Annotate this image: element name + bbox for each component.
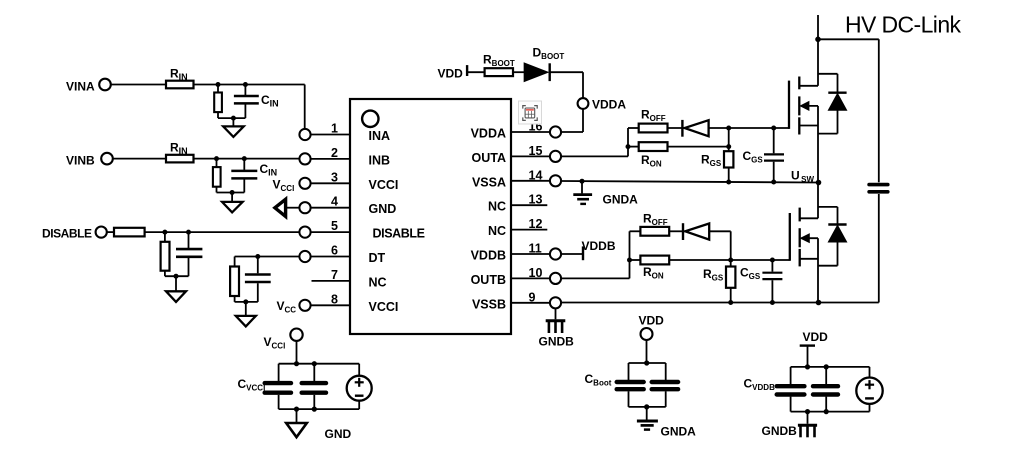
- svg-text:INB: INB: [369, 153, 391, 167]
- body diode D1 (filled, pointing up): [828, 91, 846, 93]
- pin 4 circle: [299, 202, 310, 213]
- ground GND open triangle (VCCI block): [296, 409, 298, 423]
- resistor RIN (A): [166, 81, 194, 89]
- pin 7 stub (NC): [312, 280, 351, 282]
- MOSFET Q2 body tap with arrow: [801, 237, 818, 239]
- body diode D2 (filled, pointing up): [828, 223, 846, 225]
- pin 6 stub: [311, 256, 351, 258]
- CBoot bottom rail: [629, 406, 666, 408]
- svg-text:8: 8: [331, 292, 338, 306]
- wire RON-B row: [630, 259, 641, 261]
- MOSFET Q2 source tap: [800, 258, 818, 260]
- wire VSSA pin 14 / USW rail: [561, 181, 818, 183]
- wire resistor to pin 5: [145, 231, 300, 233]
- DT resistor vertical: [234, 257, 236, 267]
- pin 1 stub: [311, 134, 351, 136]
- node junction gate A: [726, 126, 731, 131]
- ground GNDA (pin 14): [581, 181, 583, 193]
- filter resistor (A) vertical: [217, 85, 219, 93]
- wire VDD down (CVDDB): [807, 346, 809, 367]
- node junction RIN-A / filter resistor: [216, 82, 221, 87]
- MOSFET Q1 source wire down to USW: [817, 106, 819, 183]
- diode DOFF-B (open, pointing left): [682, 223, 684, 240]
- body diode D1 top link: [818, 73, 838, 75]
- resistor ROFF (B): [640, 227, 669, 236]
- resistor RON (B): [640, 256, 669, 265]
- VDD terminal tick (CVDDB block): [800, 344, 815, 346]
- node junction ground stem A: [231, 116, 236, 121]
- svg-text:HV DC-Link: HV DC-Link: [845, 12, 962, 38]
- node junction FET source B: [816, 300, 822, 306]
- wire VDDA to pin 16: [582, 109, 584, 132]
- pin 14 stub: [511, 180, 550, 182]
- wire bottom of RC (A): [218, 117, 245, 119]
- svg-text:9: 9: [529, 290, 536, 304]
- pin 12 stub (NC): [511, 229, 547, 231]
- svg-text:GNDB: GNDB: [762, 424, 798, 438]
- pin 14 circle: [550, 175, 561, 186]
- wire RIN to pin 2: [194, 158, 300, 160]
- pin 11 stub: [511, 253, 550, 255]
- MOSFET Q2 channel segments: [799, 208, 801, 222]
- svg-text:5: 5: [331, 219, 338, 233]
- node junction CIN-A: [243, 82, 248, 87]
- IC U1 gate driver body: [350, 99, 511, 334]
- node junction DISABLE R: [162, 230, 167, 235]
- wire ROFF to diode (A): [668, 127, 685, 129]
- node junction ground stem B: [230, 190, 235, 195]
- svg-text:GNDB: GNDB: [539, 335, 575, 349]
- CVDDB bottom rail: [791, 411, 870, 413]
- svg-text:12: 12: [529, 217, 543, 231]
- svg-text:DISABLE: DISABLE: [373, 227, 425, 241]
- svg-text:10: 10: [529, 266, 543, 280]
- pin 2 stub: [311, 158, 351, 160]
- IC U1 pin-1 indicator circle: [362, 111, 378, 127]
- pin 10 circle: [550, 273, 561, 284]
- svg-text:VSSA: VSSA: [472, 175, 506, 189]
- CBoot top rail: [629, 362, 666, 364]
- wire ROFF-A row left: [628, 127, 639, 129]
- pin 5 circle: [299, 227, 310, 238]
- grid icon placeholder near pin 16: [519, 101, 542, 124]
- GND arrow at pin 4 (open left triangle): [286, 207, 300, 209]
- pin 9 circle: [550, 297, 561, 308]
- wire RIN to corner above pin1: [194, 84, 305, 86]
- capacitor CGS (A): [771, 126, 776, 131]
- svg-text:NC: NC: [488, 200, 506, 214]
- diode DBOOT (filled, pointing right): [524, 63, 547, 81]
- ground DISABLE open triangle: [175, 276, 177, 291]
- wire stub up to RON/ROFF rows (B): [629, 231, 631, 278]
- ground (B) open triangle: [231, 193, 233, 202]
- svg-text:OUTA: OUTA: [472, 151, 507, 165]
- wire down to pin 1: [304, 85, 306, 129]
- capacitor CIN (A): [244, 85, 246, 96]
- svg-text:VINB: VINB: [66, 154, 95, 168]
- node junction DT cap: [255, 254, 260, 259]
- terminal VINA circle: [99, 79, 111, 91]
- svg-text:15: 15: [529, 144, 543, 158]
- wire right DC-link rail lower: [878, 194, 880, 303]
- svg-text:VDDA: VDDA: [471, 127, 506, 141]
- capacitor CGS (B): [770, 258, 775, 263]
- wire ROFF-B row left: [630, 230, 641, 232]
- resistor RIN (B): [166, 155, 194, 163]
- MOSFET Q1 source tap: [799, 125, 818, 127]
- wire diode to gate junction (B): [709, 230, 731, 232]
- svg-text:GNDA: GNDA: [661, 425, 697, 439]
- CVCCI bottom rail: [279, 408, 360, 410]
- wire top rail to right: [818, 38, 879, 40]
- node junctions CVCCI top: [294, 361, 299, 366]
- pin 4 stub: [311, 207, 351, 209]
- wire DBOOT to VDDA corner: [550, 71, 583, 73]
- svg-text:OUTB: OUTB: [471, 273, 506, 287]
- body diode D1 bottom link: [818, 133, 838, 135]
- MOSFET Q2 source wire down to VSSB rail: [817, 238, 819, 302]
- node junction DISABLE C: [186, 230, 191, 235]
- ground DT open triangle: [245, 302, 247, 316]
- wire bottom of DT RC: [235, 301, 258, 303]
- VDDB terminal tick: [582, 246, 584, 260]
- wire DT pin 6 to RC: [235, 256, 300, 258]
- node junctions CVDDB top: [805, 364, 810, 369]
- svg-text:INA: INA: [369, 129, 391, 143]
- svg-text:VCCI: VCCI: [369, 178, 399, 192]
- MOSFET Q2 drain wire from USW: [817, 183, 819, 219]
- node junction RON-B left: [627, 258, 632, 263]
- svg-text:VDDB: VDDB: [582, 239, 616, 253]
- capacitor CVCCI 1: [278, 364, 280, 381]
- svg-text:VSSB: VSSB: [472, 297, 506, 311]
- terminal VINB circle: [101, 153, 113, 165]
- node junction top rail: [815, 37, 821, 43]
- resistor RGS (A) vertical: [728, 128, 730, 151]
- body diode D2 top link: [818, 206, 838, 208]
- body diode D2 bottom link: [818, 265, 838, 267]
- svg-text:VDDA: VDDA: [592, 98, 626, 112]
- MOSFET Q1 gate bar: [788, 81, 790, 129]
- wire VSSB pin 9 rail: [561, 302, 879, 304]
- pin 8 circle: [299, 300, 310, 311]
- resistor ROFF (A): [639, 124, 668, 133]
- pin 11 circle: [550, 248, 561, 259]
- ground GNDB comb (CVDDB block): [807, 412, 809, 424]
- svg-text:VDD: VDD: [438, 67, 464, 81]
- node junction RGS-A bottom: [726, 180, 731, 185]
- capacitor CBoot 1: [628, 363, 630, 380]
- svg-text:VDDB: VDDB: [471, 249, 506, 263]
- wire RON-A row: [628, 146, 639, 148]
- wire stub up to ROFF/RON rows (A): [627, 128, 629, 156]
- pin 15 circle: [550, 151, 561, 162]
- wire OUTA pin 15 to gate-drive stub: [561, 155, 628, 157]
- ground (A) open triangle: [232, 118, 234, 126]
- wire right DC-link rail upper: [878, 39, 880, 182]
- svg-text:NC: NC: [488, 224, 506, 238]
- capacitor DISABLE: [188, 232, 190, 248]
- pin 16 stub: [511, 131, 550, 133]
- svg-text:13: 13: [529, 193, 543, 207]
- capacitor CIN (B): [243, 159, 245, 170]
- capacitor DC-link: [869, 183, 888, 187]
- wire VDD down: [646, 340, 648, 363]
- pin 9 stub: [511, 302, 550, 304]
- pulldown resistor DISABLE vertical: [164, 232, 166, 242]
- wire DISABLE to resistor: [107, 231, 114, 233]
- terminal VCCI circle (decoupling block): [290, 329, 302, 341]
- wire VDD to RBOOT: [467, 71, 485, 73]
- node junction GNDA stem: [580, 179, 585, 184]
- wire RBOOT to DBOOT: [513, 71, 524, 73]
- node junction RON-A left: [626, 144, 631, 149]
- VDD terminal tick (bootstrap): [466, 65, 468, 76]
- wire VDDB pin 11 to tick: [561, 253, 583, 255]
- ground GNDA (CBoot block): [646, 407, 648, 420]
- node junction CIN-B: [242, 156, 247, 161]
- CVCCI top rail: [279, 363, 360, 365]
- MOSFET Q2 gate bar: [789, 213, 791, 261]
- node junction RON-A right: [726, 144, 731, 149]
- svg-text:DISABLE: DISABLE: [42, 227, 92, 241]
- capacitor CVDDB 2: [825, 367, 827, 384]
- pin 15 stub: [511, 155, 550, 157]
- svg-text:DT: DT: [369, 251, 386, 265]
- node junctions CVDDB bottom: [805, 409, 810, 414]
- wire bottom of DISABLE RC: [165, 275, 189, 277]
- capacitor CVCCI 2: [313, 364, 315, 381]
- svg-text:NC: NC: [369, 275, 387, 289]
- svg-text:6: 6: [331, 244, 338, 258]
- svg-text:VCCI: VCCI: [369, 300, 399, 314]
- pin 8 stub: [311, 304, 351, 306]
- filter resistor (B) vertical: [216, 159, 218, 168]
- node junction DT ground stem: [243, 299, 248, 304]
- pin 6 circle: [299, 251, 310, 262]
- svg-text:GND: GND: [369, 202, 397, 216]
- MOSFET Q1 body tap with arrow: [801, 105, 818, 107]
- pin 3 stub: [311, 182, 351, 184]
- HV DC Link stub above: [817, 15, 819, 39]
- node junction RIN-B: [214, 156, 219, 161]
- wire OUTB pin 10 to stub: [561, 277, 629, 279]
- node junctions CVCCI bottom: [294, 407, 299, 412]
- ground GNDB at pin 9: [555, 308, 557, 319]
- resistor RBOOT: [485, 68, 513, 76]
- wire ROFF to diode (B): [669, 230, 684, 232]
- terminal VDD circle (CBoot block): [641, 328, 653, 340]
- node junction CBoot top: [644, 360, 649, 365]
- svg-text:VDD: VDD: [803, 330, 829, 344]
- pin 2 circle: [299, 153, 310, 164]
- svg-text:2: 2: [331, 146, 338, 160]
- gate rail B to FET: [731, 259, 790, 261]
- resistor RON (A): [639, 142, 668, 151]
- terminal VDDA circle: [578, 98, 589, 109]
- CVDDB top rail: [791, 366, 870, 368]
- svg-text:14: 14: [529, 168, 543, 182]
- terminal DISABLE circle: [96, 227, 107, 238]
- wire down to VDDA terminal: [582, 72, 584, 98]
- node junction USW at FET source: [816, 180, 822, 186]
- node junction DISABLE ground stem: [174, 274, 179, 279]
- capacitor CVDDB 1: [790, 367, 792, 384]
- diode DOFF-A (open, pointing left): [681, 120, 683, 137]
- svg-text:4: 4: [331, 195, 338, 209]
- pin 10 stub: [511, 277, 550, 279]
- svg-text:3: 3: [331, 170, 338, 184]
- svg-text:11: 11: [529, 242, 542, 256]
- MOSFET Q1 drain wire: [817, 39, 819, 86]
- wire VCCI down: [296, 341, 298, 364]
- node junction RGS-B bottom: [728, 300, 733, 305]
- pin 5 stub: [311, 231, 351, 233]
- svg-text:7: 7: [331, 268, 338, 282]
- dc source (VCCI block): [358, 364, 360, 376]
- svg-text:VINA: VINA: [66, 80, 95, 94]
- capacitor CBoot 2: [665, 363, 667, 380]
- pin 16 circle: [550, 126, 561, 137]
- svg-text:VDD: VDD: [639, 314, 665, 328]
- MOSFET Q1 channel segments: [798, 77, 800, 90]
- wire VINB to RIN: [113, 158, 166, 160]
- node junction RON-B right: [728, 258, 733, 263]
- wire bottom of RC (B): [217, 192, 245, 194]
- resistor DISABLE series: [114, 228, 145, 237]
- svg-text:GNDA: GNDA: [603, 193, 639, 207]
- pin 13 stub (NC): [511, 204, 547, 206]
- node junction CBoot bottom: [644, 404, 649, 409]
- DT capacitor: [257, 257, 259, 274]
- pin 3 circle: [299, 178, 310, 189]
- svg-text:GND: GND: [325, 427, 352, 441]
- pin 1 circle: [299, 129, 310, 140]
- wire VINA to RIN: [111, 84, 166, 86]
- resistor RGS (B) vertical: [730, 231, 732, 266]
- dc source (CVDDB block): [869, 367, 871, 378]
- wire diode to gate junction (A): [709, 127, 789, 129]
- svg-text:1: 1: [331, 122, 338, 136]
